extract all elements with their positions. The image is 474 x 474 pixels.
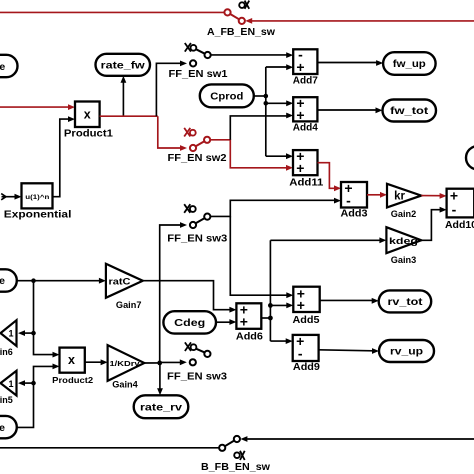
wire into Product1 in1 (red, from left edge) <box>0 106 69 108</box>
wire Gain4 output junction <box>144 362 159 364</box>
svg-text:Add9: Add9 <box>293 362 320 373</box>
switch A_FB_EN_sw lever contacts (red) <box>224 9 230 15</box>
input port stub into Exponential <box>1 194 6 200</box>
wire Add3 output (red) to Gain2 kr <box>367 194 381 196</box>
port oval fw_up <box>383 52 436 75</box>
svg-text:x: x <box>68 353 75 367</box>
svg-text:1: 1 <box>8 329 13 339</box>
block Add11 <box>293 150 318 175</box>
wire Gain2 output (red) to Add10 in1 <box>421 195 440 197</box>
port oval input e (middle left, cut off) <box>0 269 17 291</box>
svg-text:Gain3: Gain3 <box>391 255 417 265</box>
svg-text:Cprod: Cprod <box>210 91 243 103</box>
port oval cut off at right edge <box>466 146 474 170</box>
wire Product1 output (red) <box>100 115 158 117</box>
switch B_FB_EN_sw unused throw marker with X <box>234 452 240 458</box>
switch FF_EN sw3 #2 unused throw marker with X <box>191 344 197 350</box>
block Add5 <box>293 287 319 312</box>
svg-text:+: + <box>296 160 304 176</box>
wire Add6 output net to Gain3 kdeg input <box>270 239 380 241</box>
wire Cdeg output to Add6 in2 <box>216 321 230 323</box>
block Product2 <box>60 348 85 373</box>
wire Product1 output branch up to FF_EN sw1 input <box>156 63 181 116</box>
wire to rate_fw (up branch from Product1 output) <box>122 83 124 117</box>
switch FF_EN sw3 #1 unused throw marker with X <box>190 206 196 212</box>
svg-text:rate_rv: rate_rv <box>140 402 182 414</box>
svg-text:Gain6: Gain6 <box>0 347 13 357</box>
svg-text:Product1: Product1 <box>64 128 113 139</box>
svg-text:e: e <box>0 275 5 287</box>
switch FF_EN sw2 contacts and lever (red) <box>204 137 210 143</box>
wire Gain7 output to Add6 in1 (step down) <box>143 281 230 310</box>
wire Add9 output to rv_up <box>319 350 373 351</box>
gain triangle Gain4 1/KDrv <box>108 345 145 381</box>
wire Cprod branch to Add7 in2 <box>266 66 288 68</box>
svg-text:+: + <box>240 314 248 330</box>
wire branch to Add5 in2 <box>270 304 287 306</box>
svg-text:-: - <box>298 346 303 362</box>
svg-text:FF_EN sw3: FF_EN sw3 <box>167 234 227 245</box>
wire branch to Add9 in1 <box>270 340 287 342</box>
svg-text:x: x <box>84 107 91 121</box>
wire Cprod output net vertical <box>254 95 266 97</box>
svg-text:Exponential: Exponential <box>4 210 72 221</box>
wire Add6 output net vertical (to kdeg, Add5 in2, Add9 in1) <box>261 317 270 319</box>
svg-text:-: - <box>346 193 351 209</box>
svg-text:fw_up: fw_up <box>393 58 426 70</box>
wire Add5 output to rv_tot <box>320 299 373 301</box>
svg-text:kr: kr <box>394 191 405 203</box>
wire Add4 output to fw_tot <box>317 109 376 111</box>
wire from mid oval to Gain7 ratC input, with branch dot <box>17 280 100 282</box>
gain triangle Gain7 ratC <box>106 264 143 298</box>
svg-text:rate_fw: rate_fw <box>101 60 146 72</box>
svg-text:ratC: ratC <box>109 276 131 287</box>
wire Gain3 output to Add10 in2 <box>421 210 440 241</box>
port oval Cdeg <box>163 311 216 333</box>
svg-text:e: e <box>0 422 5 434</box>
wire FF_EN sw1 output to Add7 in1 <box>211 54 288 56</box>
svg-text:Gain5: Gain5 <box>0 395 13 405</box>
switch FF_EN sw3 #2 input contact <box>190 359 196 365</box>
svg-text:1/KDrv: 1/KDrv <box>110 359 140 368</box>
switch FF_EN sw2 unused throw marker with X (red) <box>190 130 196 136</box>
switch FF_EN sw3 #2 lever to open throw <box>204 351 210 357</box>
gain triangle Gain5 value 1 (left-pointing, at left edge) <box>1 371 17 396</box>
wire Cprod branch to Add4 in1 <box>266 102 288 104</box>
wire net FB_B left segment (to left edge) <box>0 447 219 449</box>
svg-text:kdeg: kdeg <box>389 236 418 247</box>
svg-text:1: 1 <box>8 379 13 389</box>
wire net FB_A left segment (red, to left edge) <box>0 11 224 13</box>
svg-text:Gain4: Gain4 <box>112 379 138 389</box>
port oval rv_up <box>379 340 434 362</box>
wire 1/KDrv output branch up to FF_EN sw3 input <box>160 225 182 363</box>
wire from bottom oval up to Product2 in2 <box>17 366 54 427</box>
wire FF_EN sw2 output (red) to Add11 in2 and branch to Add4 in2 <box>210 140 287 168</box>
block Add4 <box>293 97 317 121</box>
wire branch left to Gain5 <box>24 382 33 384</box>
switch FF_EN sw1 unused throw marker with X <box>191 45 197 51</box>
switch FF_EN sw3 #1 contacts and lever <box>204 214 210 220</box>
svg-text:+: + <box>296 107 304 123</box>
svg-text:Add7: Add7 <box>293 75 318 86</box>
svg-text:Add4: Add4 <box>293 123 318 134</box>
gain triangle Gain3 kdeg <box>386 227 421 253</box>
svg-text:-: - <box>452 201 457 217</box>
wire Product1 output branch down to FF_EN sw2 (red) <box>158 116 182 148</box>
port oval rate_fw <box>96 54 151 76</box>
wire Product2 output to Gain4 1/KDrv <box>85 361 102 363</box>
svg-text:Gain7: Gain7 <box>116 300 142 310</box>
wire net FB_B right segment (from right edge) <box>247 438 474 440</box>
block Add7 <box>293 49 317 74</box>
svg-text:Product2: Product2 <box>52 375 93 385</box>
svg-text:rv_up: rv_up <box>390 346 423 358</box>
svg-text:Add10: Add10 <box>445 220 474 231</box>
svg-text:FF_EN sw2: FF_EN sw2 <box>168 153 227 164</box>
svg-text:A_FB_EN_sw: A_FB_EN_sw <box>207 27 275 38</box>
switch FF_EN sw1 input contact <box>190 60 196 66</box>
wire Cprod branch to Add11 in1 <box>266 155 288 157</box>
svg-text:+: + <box>297 297 305 313</box>
port oval input e (top left, cut off) <box>0 55 18 77</box>
switch A_FB_EN_sw unused throw marker <box>239 2 245 8</box>
wire Add7 output to fw_up <box>317 62 376 64</box>
svg-text:Add6: Add6 <box>236 331 263 342</box>
svg-text:u(1)^n: u(1)^n <box>25 193 49 201</box>
wire vertical branch down to Product2 in1 <box>34 281 54 355</box>
svg-text:fw_tot: fw_tot <box>390 105 429 117</box>
switch FF_EN sw1 lever to output contact <box>205 52 211 58</box>
wire Gain4 output down to rate_rv <box>159 363 161 390</box>
wire Exponential output to Product1 in2 <box>53 119 69 197</box>
switch B_FB_EN_sw contacts and lever <box>219 445 225 451</box>
block Exponential u(1)^n <box>22 183 53 208</box>
svg-text:FF_EN sw3: FF_EN sw3 <box>167 372 227 383</box>
svg-text:Gain2: Gain2 <box>391 209 417 219</box>
block Add3 <box>341 182 367 208</box>
gain triangle Gain6 value 1 (left-pointing, at left edge) <box>1 320 17 346</box>
svg-text:Add11: Add11 <box>289 178 323 189</box>
svg-text:B_FB_EN_sw: B_FB_EN_sw <box>201 462 270 473</box>
wire branch up to Add4 in2 (black) <box>230 116 287 140</box>
wire net FB_A right segment (red, from right edge) <box>252 20 474 22</box>
block Add10 <box>447 189 474 218</box>
svg-text:FF_EN sw1: FF_EN sw1 <box>169 69 228 80</box>
port oval fw_tot <box>383 100 437 122</box>
port oval input e (bottom left, cut off) <box>0 416 17 438</box>
svg-text:Cdeg: Cdeg <box>174 317 205 329</box>
svg-text:rv_tot: rv_tot <box>388 296 424 308</box>
port oval Cprod <box>200 84 254 107</box>
wire branch left to Gain6 <box>24 332 33 334</box>
port oval rv_tot <box>379 290 432 312</box>
wire Gain4 output right to FF_EN sw3 #2 input <box>160 361 182 363</box>
svg-text:Add3: Add3 <box>341 209 368 220</box>
gain triangle Gain2 kr <box>387 184 421 208</box>
block Add6 <box>236 303 261 329</box>
svg-text:+: + <box>296 59 304 75</box>
wire Add11 output (red) to Add3 in1 <box>318 163 336 189</box>
block Product1 <box>75 102 100 128</box>
port oval rate_rv <box>134 395 189 418</box>
wire FF_EN sw3 output net: to Add3 in2 and Add5 in1 <box>210 200 335 216</box>
svg-text:e: e <box>0 61 5 73</box>
block Add9 <box>293 335 319 361</box>
svg-text:Add5: Add5 <box>293 315 320 326</box>
